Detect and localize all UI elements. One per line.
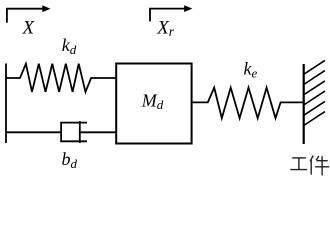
svg-text:bd: bd (62, 149, 78, 171)
spring ke (192, 88, 304, 119)
svg-text:kd: kd (62, 35, 77, 57)
spring kd (6, 64, 116, 92)
wall hatch 1 (304, 60, 325, 74)
wall line (303, 64, 305, 144)
label workpiece (gong jian) drawn strokes (290, 156, 329, 176)
wall hatch 3 (304, 81, 325, 95)
wall hatch 6 (304, 112, 325, 126)
mass Md (116, 64, 191, 144)
damper bd cup (61, 123, 87, 142)
svg-text:ke: ke (244, 59, 258, 81)
wall hatch 2 (304, 71, 325, 85)
wall hatch 5 (304, 101, 325, 115)
damper bd piston (79, 121, 81, 143)
svg-text:X: X (22, 17, 36, 38)
axis arrow Xr (150, 5, 192, 21)
damper bd rod right (80, 131, 116, 133)
axis arrow X (7, 5, 51, 23)
damper bd rod left (6, 131, 61, 133)
svg-text:Xr: Xr (156, 17, 175, 39)
wall hatch 4 (304, 91, 325, 105)
left anchor line (5, 64, 7, 144)
